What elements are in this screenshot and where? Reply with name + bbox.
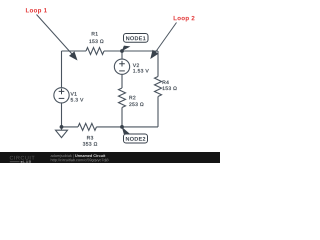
footer credit circuit name	[75, 154, 105, 157]
value label V2 1.53 V	[133, 69, 149, 73]
value label R3 353 ohm	[83, 142, 97, 146]
wire top horizontal right of R1	[104, 50, 158, 52]
label R4	[163, 81, 169, 84]
wire R2 to bottom node	[121, 108, 123, 127]
voltage source V1 circle	[54, 88, 69, 103]
node NODE2 label box	[124, 134, 148, 143]
resistor R2	[119, 88, 126, 107]
node NODE1 label text	[126, 36, 146, 40]
footer bar	[0, 152, 220, 163]
node NODE2 label text	[126, 137, 145, 141]
wire V2 to R2	[121, 74, 123, 88]
junction dot ground node	[60, 125, 64, 129]
V2 plus sign	[119, 61, 125, 67]
resistor R4	[155, 77, 162, 97]
label V2	[133, 64, 139, 67]
wire left vertical bottom segment	[61, 103, 63, 127]
ground stem	[61, 127, 63, 130]
loop 1 arrow line	[37, 15, 73, 55]
loop 2 arrowhead	[150, 50, 158, 59]
value label V1 5.3 V	[71, 98, 84, 102]
footer circuitlab logo CIRCUIT	[10, 156, 35, 160]
wire top horizontal left lead of R1	[62, 50, 87, 52]
label R2	[129, 96, 135, 99]
label R1	[92, 32, 98, 35]
resistor R1	[86, 48, 104, 55]
wire right vertical top segment	[157, 51, 159, 77]
footer credit user	[51, 154, 74, 158]
loop 1 label	[26, 8, 47, 14]
node NODE1 pointer wedge	[122, 46, 131, 52]
loop 1 arrowhead	[69, 51, 78, 60]
node NODE1 label box	[124, 34, 149, 43]
footer circuitlab logo underline dash	[10, 161, 20, 163]
wire right vertical bottom segment	[157, 97, 159, 127]
voltage source V2 circle	[114, 59, 129, 74]
value label R1 153 ohm	[89, 40, 103, 44]
V1 plus sign	[59, 89, 65, 95]
value label R4 153 ohm	[163, 87, 177, 91]
wire left vertical top segment	[61, 51, 63, 87]
label R3	[87, 136, 93, 140]
label V1	[71, 92, 77, 95]
footer credit url	[51, 158, 109, 162]
value label R2 253 ohm	[129, 103, 143, 107]
resistor R3	[78, 123, 96, 130]
V2 minus sign	[119, 70, 125, 72]
node NODE2 pointer wedge	[122, 127, 130, 134]
junction dot top node	[120, 49, 124, 53]
wire bottom horizontal right segment	[97, 126, 159, 128]
loop 2 label	[174, 16, 195, 22]
junction dot bottom node	[120, 125, 124, 129]
ground triangle	[56, 130, 68, 137]
loop 2 arrow line	[155, 23, 177, 54]
V1 minus sign	[59, 97, 65, 99]
footer circuitlab logo LAB	[21, 160, 31, 163]
wire bottom horizontal left segment	[62, 126, 79, 128]
wire middle branch top	[121, 51, 123, 59]
